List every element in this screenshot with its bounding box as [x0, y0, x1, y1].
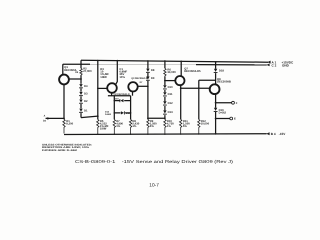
- node terminal 1 arrow: [267, 61, 270, 64]
- wire top rail +V: [81, 60, 268, 62]
- svg-text:CS-B-G809-0-1 -15V Sense an: CS-B-G809-0-1 -15V Sense and Relay Drive…: [75, 159, 234, 164]
- wire Q7 to Q8 base: [181, 87, 210, 89]
- svg-text:D11: D11: [168, 93, 173, 96]
- wire Q2 base: [98, 87, 107, 89]
- diode D4: [79, 84, 83, 88]
- wire vertical R3/R5 x97.8: [97, 60, 99, 119]
- resistor R12: [198, 119, 200, 134]
- svg-text:10-7: 10-7: [149, 182, 159, 188]
- svg-text:DIODES ARE D-662: DIODES ARE D-662: [42, 149, 78, 152]
- svg-text:1/8W: 1/8W: [100, 128, 107, 131]
- wire vertical D8/D9 x147.9: [147, 61, 149, 69]
- node junction: [130, 112, 132, 114]
- resistor R10: [164, 119, 166, 134]
- node junction: [147, 117, 149, 119]
- svg-text:D10: D10: [168, 86, 174, 89]
- node terminal E circle: [230, 117, 233, 120]
- svg-text:D18: D18: [219, 70, 225, 73]
- node junction collector: [80, 64, 82, 66]
- node junction rail: [215, 61, 217, 63]
- wire vertical chain1 x81: [80, 60, 82, 68]
- svg-text:DEC3009B: DEC3009B: [217, 81, 231, 84]
- node terminal 4 arrow: [266, 132, 269, 135]
- node junction: [215, 118, 217, 120]
- svg-text:B 4: B 4: [271, 132, 276, 136]
- wire link x147.9 to x164.9 at y118.2: [148, 117, 165, 119]
- svg-text:E: E: [234, 118, 236, 121]
- wire Q7 collector: [180, 61, 182, 76]
- transistor Q1: [59, 75, 69, 85]
- transistor Q8: [210, 84, 220, 94]
- node junction rail: [117, 60, 119, 62]
- wire Q7 emitter down: [180, 85, 182, 119]
- node junction rail: [180, 61, 182, 63]
- node junction: [198, 87, 200, 89]
- diode D3: [79, 92, 83, 96]
- wire branch to terminal E: [216, 118, 230, 120]
- svg-text:D4: D4: [84, 85, 88, 88]
- svg-text:DEC3504-R5: DEC3504-R5: [184, 70, 201, 73]
- node terminal F circle: [232, 101, 235, 104]
- diode D5: [120, 99, 124, 102]
- node junction: [215, 102, 217, 104]
- wire Q3 base to chain x147.9: [138, 85, 148, 87]
- svg-text:R5: R5: [75, 71, 79, 74]
- transistor Q3: [128, 82, 137, 91]
- svg-text:8,200: 8,200: [66, 122, 73, 125]
- node junction rail: [164, 60, 166, 62]
- wire chain1 bottom to R5 node: [81, 116, 98, 118]
- diode D18: [214, 69, 218, 73]
- svg-text:D3: D3: [84, 93, 88, 96]
- svg-text:D1: D1: [84, 109, 88, 112]
- resistor R9: [147, 119, 149, 134]
- wire bottom rail -15V: [64, 133, 267, 136]
- node junction bottom rail: [215, 133, 217, 135]
- svg-text:Q2 DEC3504-R: Q2 DEC3504-R: [114, 93, 130, 96]
- svg-text:10,000: 10,000: [201, 122, 210, 125]
- wire vertical R12 x198.8: [198, 80, 200, 119]
- diode D1: [79, 109, 83, 113]
- node junction: [97, 88, 99, 90]
- diode D8: [146, 69, 150, 73]
- wire Q8 emitter down: [215, 94, 217, 108]
- wire vertical x130.6 down: [130, 96, 132, 120]
- wire vertical Q8 x215.6: [215, 62, 217, 69]
- svg-text:Q3 DEC3504-R: Q3 DEC3504-R: [131, 77, 147, 80]
- labels: [43, 66, 238, 130]
- node terminal 3 arrow: [45, 117, 48, 120]
- resistor R8: [129, 119, 131, 134]
- wire diode row B: [114, 112, 130, 114]
- resistor R11: [180, 119, 182, 134]
- wire vertical C1 x117.3: [116, 61, 118, 85]
- svg-text:D12: D12: [168, 102, 174, 105]
- resistor R5: [97, 119, 99, 134]
- wire Q3 emitter stub: [132, 92, 134, 96]
- svg-text:D3: D3: [43, 120, 47, 123]
- node terminal 2 arrow: [266, 64, 269, 67]
- node junction: [114, 112, 116, 114]
- svg-text:D9: D9: [151, 77, 155, 80]
- wire Q2 emitter stub: [111, 93, 113, 96]
- node junction Q7 base: [164, 80, 166, 82]
- svg-text:C 2: C 2: [272, 64, 277, 68]
- transistor Q7: [175, 76, 184, 85]
- resistor R1: [63, 119, 65, 133]
- node junction base: [80, 78, 82, 80]
- resistor R7: [113, 119, 115, 134]
- svg-text:D13: D13: [168, 111, 174, 114]
- svg-text:D2: D2: [84, 100, 88, 103]
- wire Q7 base: [165, 80, 175, 82]
- svg-text:D8: D8: [151, 69, 155, 72]
- wire branch to terminal F: [216, 102, 232, 104]
- svg-text:1/8W: 1/8W: [100, 76, 107, 79]
- node junction: [114, 100, 116, 102]
- node junction Q3 base: [147, 86, 149, 88]
- svg-text:1%: 1%: [116, 125, 121, 128]
- wire: [215, 112, 217, 115]
- svg-text:D7: D7: [140, 81, 144, 84]
- wire Q1 collector: [62, 64, 64, 75]
- svg-text:5%: 5%: [150, 125, 155, 128]
- wire Q1 base to node: [69, 78, 81, 80]
- diode D6: [121, 111, 125, 114]
- footer note: [42, 144, 92, 152]
- svg-text:1%: 1%: [132, 125, 137, 128]
- svg-text:27,000: 27,000: [83, 70, 92, 73]
- diode D11: [163, 92, 167, 96]
- wire vertical x114.3 down: [113, 96, 115, 120]
- node junction Q7 emitter: [180, 87, 182, 89]
- diode D12: [163, 101, 167, 105]
- wire: [80, 75, 82, 84]
- wire Q1 emitter down: [63, 84, 65, 119]
- wire vertical x164.9: [164, 61, 166, 68]
- wire diode row A: [114, 100, 130, 102]
- svg-text:5%: 5%: [183, 125, 188, 128]
- diode D9: [146, 77, 150, 81]
- svg-text:33,000: 33,000: [167, 71, 176, 74]
- svg-text:GND: GND: [282, 64, 290, 68]
- node junction dots bottom rail: [97, 133, 199, 135]
- diode D19: [214, 108, 218, 112]
- wire left stub terminal 3: [46, 117, 64, 119]
- diode D13: [163, 110, 167, 114]
- wire upper link to Q8 collector net: [199, 79, 216, 81]
- diode D10: [163, 85, 167, 89]
- svg-text:D-662: D-662: [105, 113, 112, 116]
- svg-text:F: F: [236, 102, 238, 105]
- svg-text:D15: D15: [115, 97, 120, 100]
- resistor R6: [164, 68, 166, 76]
- transistor Q2: [107, 83, 117, 93]
- svg-text:A: A: [44, 114, 46, 117]
- node junction Q1 emitter / stub: [63, 118, 65, 120]
- svg-text:-15V: -15V: [279, 132, 286, 136]
- resistor R2: [80, 68, 82, 75]
- svg-text:D-662: D-662: [219, 111, 227, 114]
- wire second rail to terminal 2: [63, 63, 90, 65]
- svg-text:10%: 10%: [119, 76, 125, 79]
- diode D2: [79, 100, 83, 104]
- node junction: [97, 115, 99, 117]
- svg-text:1%: 1%: [167, 125, 172, 128]
- wire W1 joining emitters: [108, 95, 131, 97]
